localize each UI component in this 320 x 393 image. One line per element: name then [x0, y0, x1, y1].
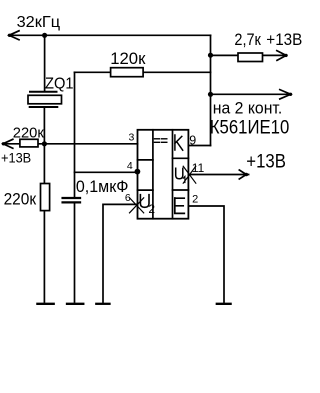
- svg-text:К561ИЕ10: К561ИЕ10: [210, 117, 289, 138]
- node junction na2kont: [208, 92, 213, 97]
- svg-text:ZQ1: ZQ1: [45, 76, 74, 93]
- node K label: [175, 135, 183, 150]
- ground right: [217, 303, 231, 305]
- node junction 2.7k: [208, 53, 213, 58]
- ground left: [37, 303, 53, 305]
- node junction pin4: [135, 169, 141, 175]
- svg-text:2: 2: [148, 202, 155, 216]
- node junction top: [42, 33, 47, 38]
- wire junction to crystal: [44, 35, 46, 91]
- wire crystal to pin3 rail: [43, 107, 45, 144]
- resistor 220k horizontal body: [20, 139, 38, 147]
- resistor 120k body: [111, 68, 144, 77]
- svg-text:+13В: +13В: [246, 151, 286, 172]
- node U2 label: [140, 195, 149, 208]
- ground middle: [67, 303, 83, 305]
- svg-text:3: 3: [129, 131, 135, 143]
- node arrowhead pin3 left: [3, 139, 13, 148]
- node U1 label: [176, 168, 183, 179]
- wire crystal node to 220k vertical: [43, 144, 45, 302]
- svg-text:+13В: +13В: [266, 30, 302, 49]
- svg-text:32кГц: 32кГц: [17, 14, 61, 31]
- wire pin9 to rail: [188, 145, 210, 147]
- svg-text:2: 2: [192, 193, 198, 205]
- wire pin4: [75, 171, 138, 173]
- wire capacitor to ground: [74, 203, 76, 302]
- svg-text:11: 11: [192, 161, 205, 175]
- wire 2.7k branch: [211, 54, 287, 56]
- node == symbol: [154, 139, 166, 143]
- wire pin2 to ground: [188, 206, 224, 302]
- wire pin3 rail: [3, 143, 138, 145]
- node arrowhead pin11 right: [239, 170, 246, 179]
- node arrowhead 32kHz left: [9, 31, 19, 40]
- wire na2kont branch: [211, 93, 292, 95]
- capacitor 0.1uF: [63, 198, 80, 202]
- node E label: [175, 198, 185, 213]
- resistor 220k vertical body: [41, 184, 50, 211]
- node arrowhead 2.7k right: [277, 51, 286, 61]
- wire pin11 arrow: [189, 174, 249, 176]
- wire pin6: [103, 204, 138, 302]
- wire vertical left branch x74.5: [74, 72, 76, 197]
- node X cross pin6: [130, 198, 144, 213]
- svg-text:220к: 220к: [4, 190, 37, 208]
- wire 120k feedback rail: [75, 71, 211, 73]
- node arrowhead na2kont right: [280, 90, 291, 99]
- svg-text:120к: 120к: [110, 49, 146, 68]
- node junction pin3/crystal: [42, 141, 47, 146]
- wire right rail: [210, 35, 212, 145]
- svg-text:2,7к: 2,7к: [234, 30, 261, 49]
- IC DD1 box (oscillator-divider): [138, 130, 189, 219]
- crystal ZQ1: [28, 92, 62, 107]
- node X cross pin11: [183, 166, 196, 183]
- wire 32kHz top rail: [9, 34, 211, 36]
- svg-text:220к: 220к: [13, 125, 44, 142]
- svg-text:4: 4: [127, 160, 133, 172]
- svg-text:на 2 конт.: на 2 конт.: [213, 98, 282, 117]
- resistor 2.7k body: [238, 53, 263, 62]
- svg-text:0,1мкФ: 0,1мкФ: [76, 178, 128, 196]
- ground pin6: [96, 303, 109, 305]
- svg-text:+13В: +13В: [1, 150, 31, 166]
